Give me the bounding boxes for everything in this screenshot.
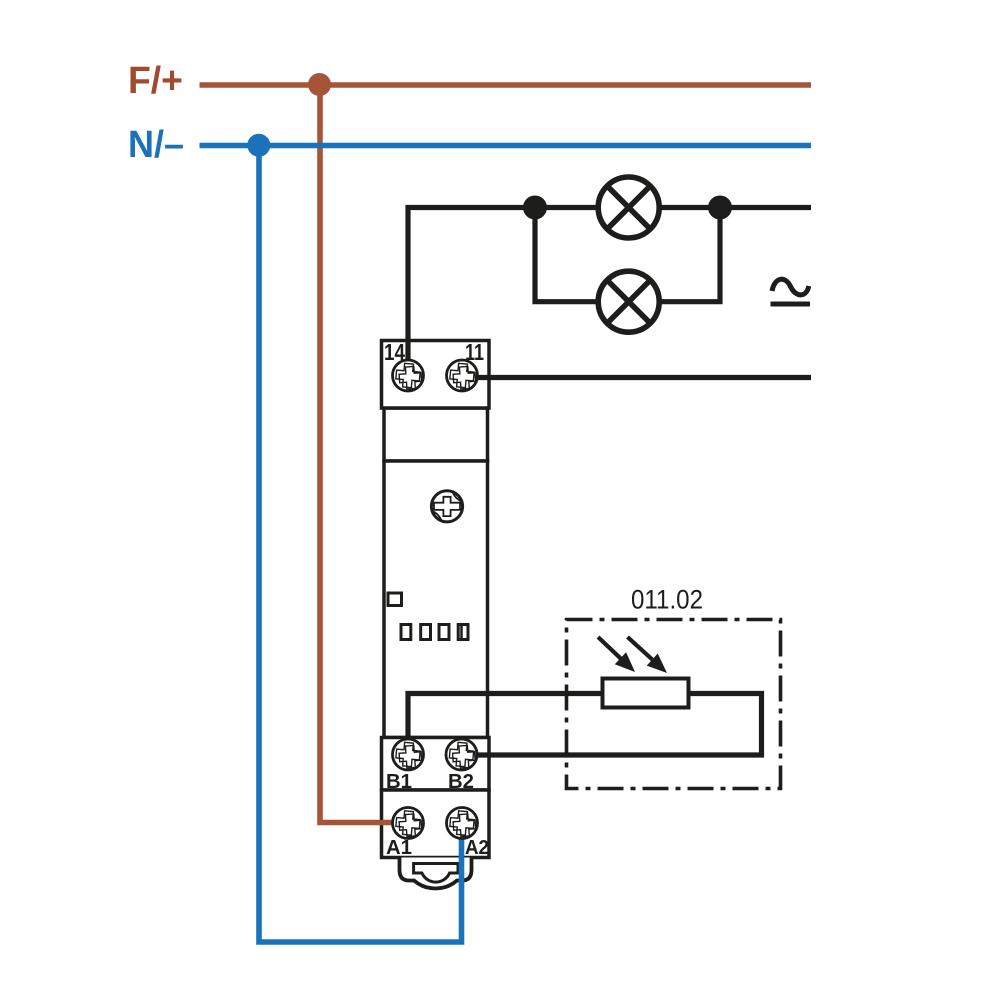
svg-text:14: 14 (384, 339, 405, 365)
svg-text:B2: B2 (448, 771, 474, 793)
svg-text:011.02: 011.02 (631, 585, 703, 615)
svg-text:B1: B1 (386, 771, 412, 793)
svg-text:F/+: F/+ (128, 60, 183, 102)
svg-text:N/–: N/– (128, 124, 184, 166)
svg-text:A2: A2 (465, 837, 489, 859)
svg-text:A1: A1 (386, 837, 412, 859)
svg-text:11: 11 (465, 339, 484, 365)
